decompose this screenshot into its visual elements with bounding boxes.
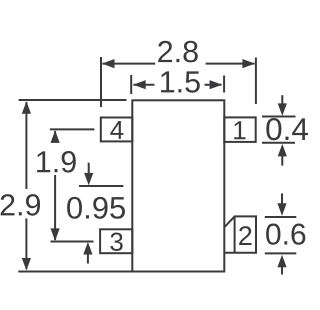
dimension 0.6 bottom extension line: [265, 252, 297, 254]
dimension 1.9 bottom extension line (pad 3 centerline): [51, 241, 94, 243]
arrowhead 0.4 down: [278, 103, 287, 116]
pad 1 (top-right pin): [224, 117, 255, 141]
pad 3 (bottom-left pin): [100, 229, 132, 253]
label 3: [110, 233, 122, 251]
label 2.9: [1, 194, 40, 216]
arrowhead 1.5 right: [210, 80, 223, 89]
arrowhead 1.9 up: [51, 130, 60, 143]
dimension 0.6 upper arrow shaft: [281, 193, 283, 205]
dimension 1.5 left tick: [130, 75, 132, 94]
dimension 1.9 top extension line (pad 4 centerline): [50, 128, 95, 130]
label 0.95: [67, 197, 125, 219]
label 1.5: [161, 71, 200, 92]
dimension 0.95 upper arrow shaft: [88, 163, 90, 174]
dimension 1.9 vertical line lower segment: [54, 175, 56, 240]
dimension 0.95 lower arrow shaft: [87, 253, 89, 264]
dimension 2.8 line left segment: [103, 63, 156, 65]
dimension 2.9 vertical line upper segment: [25, 102, 27, 189]
dimension 2.9 top extension line: [19, 99, 127, 101]
dimension 2.8 left extension line: [100, 57, 102, 107]
dimension 0.4 upper arrow shaft: [281, 95, 283, 106]
dimension 0.4 top extension line: [262, 116, 296, 118]
dimension 2.8 right extension line: [255, 58, 257, 105]
dimension 2.9 bottom extension line: [18, 271, 132, 273]
arrowhead 0.95 down (at body centerline): [84, 173, 93, 186]
dimension 0.4 lower arrow shaft: [281, 154, 283, 166]
arrowhead 0.95 up (at pad 3 centerline): [83, 242, 92, 255]
dimension 1.5 line left segment: [133, 84, 154, 86]
dimension 2.9 vertical line lower segment: [25, 219, 27, 270]
arrowhead 1.5 left: [133, 80, 146, 89]
label 1: [234, 121, 245, 139]
arrowhead 0.6 up: [277, 255, 286, 268]
dimension 1.5 right tick: [223, 76, 225, 93]
label 0.6: [266, 224, 305, 245]
dimension 0.6 lower arrow shaft: [281, 265, 283, 275]
dimension 1.9 vertical line upper segment: [54, 131, 56, 142]
arrowhead 1.9 down: [51, 228, 60, 241]
dimension 0.4 bottom extension line: [262, 142, 295, 144]
pad 2 (bottom-right pin, chamfered): [224, 216, 256, 252]
arrowhead 0.4 up: [278, 144, 287, 157]
dimension 2.8 line right segment: [206, 63, 255, 65]
arrowhead 2.9 up: [22, 101, 31, 114]
label 2.8: [158, 41, 198, 63]
dimension 0.95 body centerline: [79, 185, 123, 187]
pad 4 (top-left pin): [101, 118, 133, 142]
dimension 0.6 top extension line: [265, 216, 297, 218]
label 0.4: [266, 118, 308, 140]
arrowhead 2.9 down: [22, 258, 31, 271]
label 1.9: [37, 151, 76, 173]
arrowhead 0.6 down: [277, 203, 286, 216]
package body outline: [132, 100, 224, 271]
label 2: [239, 226, 251, 245]
arrowhead 2.8 right: [242, 59, 255, 68]
dimension 1.5 line right segment: [205, 84, 222, 86]
label 4: [110, 121, 123, 139]
arrowhead 2.8 left: [102, 59, 115, 68]
